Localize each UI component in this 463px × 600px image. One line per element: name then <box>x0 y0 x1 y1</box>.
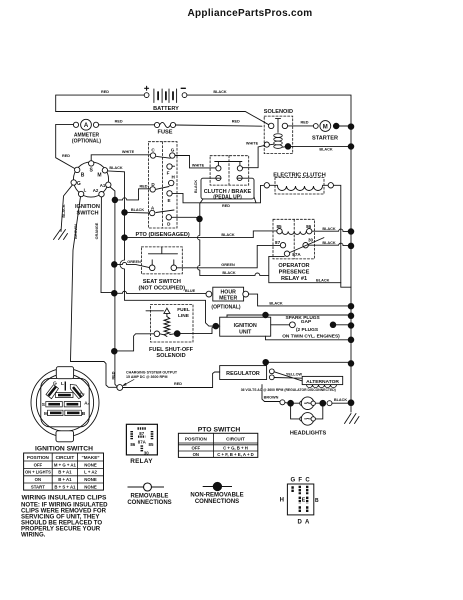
svg-text:86: 86 <box>130 442 135 447</box>
headlight 1 <box>294 397 320 410</box>
svg-text:(2 PLUGS: (2 PLUGS <box>296 327 319 333</box>
svg-text:ON TWIN CYL. ENGINES): ON TWIN CYL. ENGINES) <box>282 333 340 339</box>
svg-text:(NOT OCCUPIED): (NOT OCCUPIED) <box>138 286 185 292</box>
svg-text:YELLOW: YELLOW <box>286 372 303 376</box>
regulator <box>220 366 267 380</box>
svg-text:BLACK: BLACK <box>109 166 123 170</box>
wire black M-line to relay 85 <box>127 231 276 238</box>
wire black M to pto A <box>127 211 149 214</box>
svg-text:36 VOLTS AC @ 3600 RPM (REGULA: 36 VOLTS AC @ 3600 RPM (REGULATOR DISCON… <box>241 388 336 392</box>
label RED to ignition <box>62 154 70 158</box>
svg-text:M: M <box>323 124 328 130</box>
label WHITE S-C <box>122 150 135 154</box>
svg-text:85: 85 <box>149 442 154 447</box>
svg-text:FUEL SHUT-OFF: FUEL SHUT-OFF <box>149 347 194 353</box>
svg-text:START: START <box>31 484 45 489</box>
ignition switch table <box>24 453 104 490</box>
fuel shut-off solenoid box <box>146 305 194 360</box>
svg-text:BLACK: BLACK <box>213 90 227 94</box>
svg-text:OFF: OFF <box>192 446 201 451</box>
svg-text:E: E <box>167 198 170 203</box>
label BLACK M <box>109 166 123 170</box>
svg-text:H: H <box>280 497 284 503</box>
svg-text:RED: RED <box>101 90 109 94</box>
ignition switch symbol <box>71 161 111 217</box>
label BLACK battery <box>213 90 227 94</box>
relay coil 85-86 <box>282 231 306 234</box>
svg-text:BLACK: BLACK <box>269 301 283 305</box>
junction solenoid black bus <box>348 144 354 150</box>
legend non-removable connections <box>190 482 243 505</box>
svg-text:B + S + A1: B + S + A1 <box>54 484 76 489</box>
svg-text:A₂: A₂ <box>84 401 89 406</box>
wire clutch label box down <box>198 199 204 276</box>
spark plug gap <box>271 322 349 328</box>
seat switch box <box>138 247 185 292</box>
svg-text:A: A <box>305 520 310 526</box>
relay terminal 87A <box>284 251 301 257</box>
label BLACK 87A wire <box>222 271 236 275</box>
svg-text:WHITE: WHITE <box>192 163 205 167</box>
relay terminal 30 <box>303 237 314 248</box>
svg-text:87A: 87A <box>138 439 147 444</box>
label WHITE solenoid <box>246 141 259 145</box>
label BROWN L <box>74 224 78 239</box>
svg-text:FUEL: FUEL <box>177 307 190 313</box>
alternator <box>302 376 343 387</box>
svg-text:ON + LIGHTS: ON + LIGHTS <box>25 470 51 475</box>
svg-text:RED: RED <box>112 371 116 379</box>
pto terminal H <box>169 175 176 186</box>
svg-text:RED: RED <box>139 184 147 188</box>
svg-text:G: G <box>53 381 57 387</box>
junction A1 to pto D <box>112 197 118 203</box>
junction headlight right <box>320 400 326 406</box>
svg-text:B: B <box>81 173 85 179</box>
svg-text:BLACK: BLACK <box>322 241 336 245</box>
wire pto E red to electric clutch <box>172 185 263 202</box>
junction ignition unit left <box>213 323 220 329</box>
junction starter bus <box>348 124 354 130</box>
wire green to seat switch <box>117 262 149 267</box>
svg-text:C + F, B + E, A + D: C + F, B + E, A + D <box>217 452 254 457</box>
charging system connector <box>117 385 123 391</box>
wire hour meter to bus <box>249 294 349 306</box>
svg-text:A₁: A₁ <box>80 391 85 396</box>
svg-text:ON: ON <box>35 477 41 482</box>
junction clutch vertical <box>197 216 203 222</box>
label BLACK to 85 <box>221 233 235 237</box>
svg-text:SEAT SWITCH: SEAT SWITCH <box>143 279 181 285</box>
junction A1 seat row <box>112 262 118 268</box>
wire battery black to bus <box>187 95 351 124</box>
legend removable connections <box>127 483 171 506</box>
wire relay 30 to bus <box>308 243 348 245</box>
pto terminal D <box>150 182 155 192</box>
operator presence relay box <box>273 219 314 259</box>
pto switch table <box>178 426 257 457</box>
label HEADLIGHTS <box>290 430 327 436</box>
junction M to pto A <box>122 210 128 216</box>
label 36 volts <box>241 388 336 392</box>
label spark plugs <box>282 315 340 339</box>
junction starter output <box>333 123 348 129</box>
junction hour meter bus <box>348 303 354 309</box>
svg-text:BLACK: BLACK <box>194 180 198 194</box>
svg-text:B + A1: B + A1 <box>58 470 72 475</box>
label PTO (DISENGAGED) <box>136 232 190 238</box>
svg-text:G: G <box>77 181 81 187</box>
svg-text:RED: RED <box>174 382 182 386</box>
battery BT1 <box>144 86 187 112</box>
svg-text:WHITE: WHITE <box>122 150 135 154</box>
label BLACK hour meter <box>269 301 283 305</box>
svg-text:CIRCUIT: CIRCUIT <box>226 437 245 442</box>
clutch/brake label box <box>201 178 254 200</box>
svg-text:METER: METER <box>219 295 237 301</box>
svg-text:LINE: LINE <box>178 313 190 319</box>
wire ignition A1 down <box>110 187 117 387</box>
wire solenoid white down to clutch/brake <box>243 145 265 167</box>
svg-text:C: C <box>305 478 310 484</box>
fuse F1 <box>154 122 175 135</box>
starter motor M <box>288 121 338 142</box>
svg-text:SOLENOID: SOLENOID <box>156 353 185 359</box>
hour meter <box>206 287 249 310</box>
svg-text:WHITE: WHITE <box>246 141 259 145</box>
wire ignition L brown <box>71 197 117 388</box>
svg-text:BLACK: BLACK <box>221 233 235 237</box>
pto terminal F <box>167 164 175 176</box>
svg-text:87A: 87A <box>292 252 301 257</box>
junction regulator bus <box>348 361 354 367</box>
svg-text:C + G, B + H: C + G, B + H <box>223 446 248 451</box>
svg-text:BLACK: BLACK <box>322 227 336 231</box>
wire left vertical to ignition B <box>56 125 75 169</box>
wire electric clutch to bus join <box>334 185 352 287</box>
wire pto D2 to junction <box>172 217 200 219</box>
label BLACK relay bottom <box>316 278 330 282</box>
wire relay 86 to bus <box>312 229 348 231</box>
svg-text:15 AMP DC @ 3600 RPM: 15 AMP DC @ 3600 RPM <box>126 375 167 379</box>
svg-text:STARTER: STARTER <box>312 136 338 142</box>
label RED E wire <box>222 204 230 208</box>
pto terminal G <box>170 148 175 159</box>
junction headlights bus <box>348 400 354 406</box>
svg-text:BROWN: BROWN <box>74 224 78 239</box>
wire pto G white to clutch <box>175 156 216 168</box>
svg-text:ORANGE: ORANGE <box>95 222 99 239</box>
svg-text:HEADLIGHTS: HEADLIGHTS <box>290 430 327 436</box>
label BLACK 30 <box>322 241 336 245</box>
svg-text:B + A1: B + A1 <box>58 477 72 482</box>
svg-text:L + A2: L + A2 <box>84 470 97 475</box>
svg-text:G: G <box>290 478 295 484</box>
wire black 87A bottom <box>200 256 341 282</box>
svg-text:CONNECTIONS: CONNECTIONS <box>127 500 171 506</box>
junction 86 bus <box>348 229 354 235</box>
wire battery red top <box>56 95 145 111</box>
junction spark bus <box>348 323 354 329</box>
label RED battery <box>101 90 109 94</box>
pto switch box <box>148 142 177 228</box>
label BROWN headlights <box>264 396 279 400</box>
wire regulator top to bus <box>266 362 349 365</box>
svg-text:87: 87 <box>139 431 144 436</box>
wire red A1 to pto D <box>118 189 150 200</box>
junction ignition unit top <box>263 312 269 318</box>
label BLACK solenoid-bus <box>319 147 333 151</box>
wire starter black label <box>326 147 329 151</box>
svg-text:NONE: NONE <box>84 477 97 482</box>
svg-text:RED: RED <box>232 120 240 124</box>
note text <box>21 501 108 538</box>
clutch/brake switch box <box>210 156 249 185</box>
svg-text:RED: RED <box>300 121 308 125</box>
label charging system output <box>123 370 178 385</box>
svg-text:M: M <box>44 411 48 417</box>
svg-text:BATTERY: BATTERY <box>153 106 179 112</box>
pto terminal E <box>167 191 172 203</box>
relay blade 87A-30 <box>290 238 324 253</box>
svg-text:BLACK: BLACK <box>316 278 330 282</box>
svg-text:M + G + A1: M + G + A1 <box>54 462 77 467</box>
svg-text:L: L <box>61 381 64 387</box>
label YELLOW <box>286 372 303 376</box>
svg-text:RELAY #1: RELAY #1 <box>281 276 307 282</box>
svg-text:RELAY: RELAY <box>130 458 153 465</box>
svg-text:ALTERNATOR: ALTERNATOR <box>306 379 339 385</box>
svg-text:E: E <box>302 497 306 503</box>
label operator presence relay <box>278 263 309 282</box>
ammeter A (optional) <box>72 119 101 144</box>
svg-text:POSITION: POSITION <box>27 455 50 460</box>
junction headlight left <box>288 400 294 406</box>
wire green seat to relay 87 <box>177 245 281 267</box>
svg-text:(PEDAL UP): (PEDAL UP) <box>213 194 242 200</box>
svg-text:BLACK: BLACK <box>222 271 236 275</box>
svg-text:NONE: NONE <box>84 462 97 467</box>
pto blade A-D2 <box>156 210 174 213</box>
svg-text:OFF: OFF <box>34 462 43 467</box>
label RED starter <box>300 121 308 125</box>
pto terminal A <box>150 206 155 216</box>
svg-text:B: B <box>315 498 319 504</box>
wire charging red to regulator <box>123 372 220 388</box>
label WHITE G-clutch <box>192 163 205 167</box>
label BLACK clutch left <box>194 180 198 194</box>
ground right bus <box>345 414 360 424</box>
label RED pto D <box>139 184 147 188</box>
svg-text:IGNITION SWITCH: IGNITION SWITCH <box>35 445 93 452</box>
svg-text:“MAKE”: “MAKE” <box>81 455 99 460</box>
wire brown to headlights <box>262 385 280 402</box>
headlight connector right <box>327 401 348 406</box>
svg-text:IGNITION: IGNITION <box>234 323 257 329</box>
svg-text:CIRCUIT: CIRCUIT <box>56 455 75 460</box>
svg-text:SWITCH: SWITCH <box>77 211 99 217</box>
svg-text:GAP: GAP <box>301 319 312 325</box>
label ORANGE A2 <box>95 222 99 239</box>
label BLACK headlights <box>334 398 348 402</box>
regulator yellow pigtails <box>269 369 302 381</box>
junction M-line clutch row <box>122 235 128 241</box>
wire ignition M black <box>108 171 217 326</box>
svg-text:PTO SWITCH: PTO SWITCH <box>198 426 241 433</box>
svg-text:CONNECTIONS: CONNECTIONS <box>195 499 239 505</box>
svg-text:G: G <box>171 148 175 153</box>
svg-text:RED: RED <box>62 154 70 158</box>
ignition unit <box>220 317 271 336</box>
svg-text:CHARGING SYSTEM OUTPUT: CHARGING SYSTEM OUTPUT <box>126 370 178 374</box>
svg-text:F: F <box>167 171 170 176</box>
wire ignition A2 orange <box>101 197 111 293</box>
wire to fuel solenoid <box>117 334 154 351</box>
svg-text:PTO (DISENGAGED): PTO (DISENGAGED) <box>136 232 190 238</box>
svg-text:BLACK: BLACK <box>62 204 66 218</box>
wire battery loop bottom to solenoid <box>56 112 269 125</box>
ground ignition G <box>54 230 68 240</box>
label RED A1 bottom <box>112 371 116 379</box>
label wiring insulated clips <box>22 495 107 502</box>
svg-text:BLACK: BLACK <box>131 208 145 212</box>
wire solenoid coil black to bus <box>291 145 348 147</box>
bus right vertical <box>350 124 352 412</box>
label RED ammeter-fuse <box>115 120 123 124</box>
svg-text:AppliancePartsPros.com: AppliancePartsPros.com <box>188 8 313 19</box>
svg-text:OPERATOR: OPERATOR <box>278 263 309 269</box>
svg-text:PRESENCE: PRESENCE <box>279 270 310 276</box>
label BLACK 86 <box>322 227 336 231</box>
junction 30 bus <box>348 243 354 249</box>
svg-text:SOLENOID: SOLENOID <box>264 109 293 115</box>
svg-text:WIRING.: WIRING. <box>21 531 46 538</box>
svg-text:REGULATOR: REGULATOR <box>226 371 260 377</box>
svg-text:M: M <box>97 173 101 179</box>
svg-text:RED: RED <box>115 120 123 124</box>
svg-text:30: 30 <box>144 450 149 455</box>
svg-text:ON: ON <box>193 452 199 457</box>
label RED fuse-solenoid <box>232 120 240 124</box>
svg-text:87: 87 <box>275 240 281 245</box>
wire ignition G to ground <box>61 185 73 232</box>
label GREEN seat <box>127 260 141 264</box>
svg-text:A2: A2 <box>93 188 99 193</box>
svg-text:A: A <box>84 123 89 129</box>
label BLACK G <box>62 204 66 218</box>
pto terminal C <box>150 148 155 159</box>
relay legend <box>126 424 157 465</box>
label GREEN right <box>221 263 235 267</box>
svg-text:RED: RED <box>222 204 230 208</box>
svg-text:(OPTIONAL): (OPTIONAL) <box>211 305 240 311</box>
svg-text:REMOVABLE: REMOVABLE <box>131 494 169 500</box>
svg-text:GREEN: GREEN <box>221 263 235 267</box>
svg-text:UNIT: UNIT <box>239 329 252 335</box>
svg-text:BLACK: BLACK <box>334 398 348 402</box>
wire clutch right exit to E junction <box>254 197 256 203</box>
label RED charging <box>174 382 182 386</box>
junction A1 fuel row <box>112 348 118 354</box>
junction regulator top <box>263 359 269 365</box>
ignition switch connector view <box>31 367 99 442</box>
svg-text:BLUE: BLUE <box>185 289 196 293</box>
wire fuel solenoid to ignition unit <box>180 326 217 334</box>
svg-text:B: B <box>82 411 86 417</box>
wire ignition unit top to bus <box>227 315 348 317</box>
pto blade D-E <box>156 187 169 190</box>
pto blade C-G <box>157 156 171 158</box>
headlight 2 <box>291 406 323 425</box>
label IGNITION SWITCH connector <box>35 445 93 452</box>
svg-text:GREEN: GREEN <box>127 260 141 264</box>
wire blue to hour meter <box>117 291 206 293</box>
headlight connector left <box>280 400 288 405</box>
junction ignition unit top bus <box>348 313 354 319</box>
svg-text:30: 30 <box>308 237 314 242</box>
junction A1 hour meter row <box>112 290 118 296</box>
svg-text:D: D <box>298 520 303 526</box>
wire ignition unit bottom to bus <box>266 336 349 340</box>
wire ammeter row <box>56 125 262 127</box>
label BLUE <box>185 289 196 293</box>
svg-text:F: F <box>298 478 302 484</box>
pto connector view <box>280 478 319 526</box>
wire ignition S white <box>91 155 150 161</box>
svg-text:POSITION: POSITION <box>185 437 208 442</box>
svg-text:NON-REMOVABLE: NON-REMOVABLE <box>190 493 243 499</box>
svg-text:(OPTIONAL): (OPTIONAL) <box>72 139 101 145</box>
pto terminal D2 <box>166 215 171 227</box>
relay terminal 86 <box>306 224 312 234</box>
electric clutch <box>264 172 333 194</box>
svg-text:L: L <box>84 188 87 193</box>
svg-text:FUSE: FUSE <box>158 130 173 136</box>
relay terminal 87 <box>275 240 286 248</box>
svg-text:NONE: NONE <box>84 484 97 489</box>
relay terminal 85 <box>276 224 282 234</box>
junction ignition bottom bus <box>348 337 354 343</box>
svg-text:BROWN: BROWN <box>264 396 279 400</box>
label BLACK pto A <box>131 208 145 212</box>
svg-text:A1: A1 <box>100 183 106 188</box>
solenoid <box>264 109 293 154</box>
